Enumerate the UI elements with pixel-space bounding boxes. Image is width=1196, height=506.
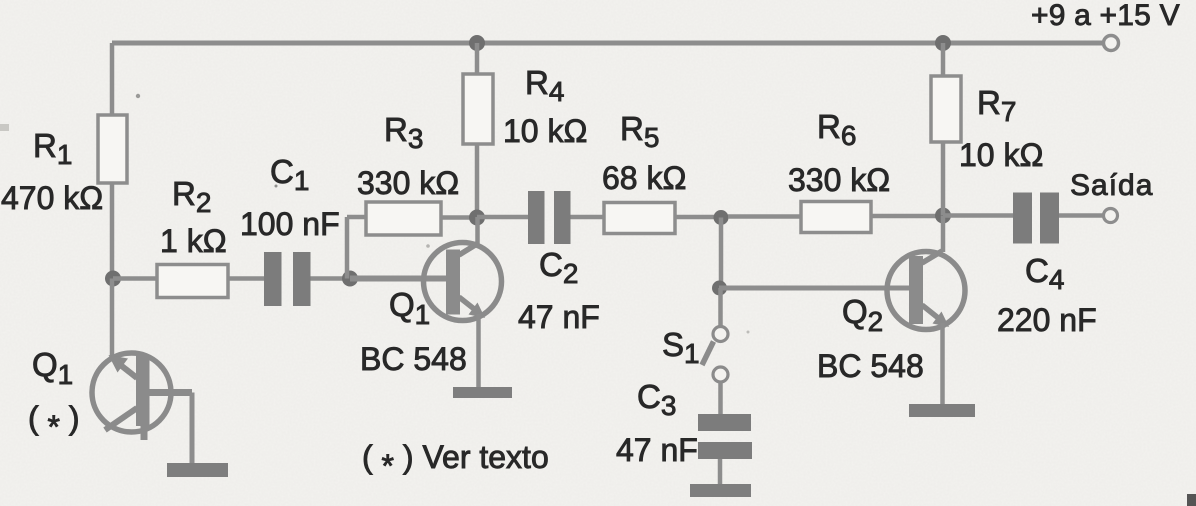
wire: C4 to output terminal — [1059, 213, 1104, 218]
svg-text:100 nF: 100 nF — [240, 206, 340, 242]
wire: rail down to R1 — [110, 43, 115, 115]
svg-text:1 kΩ: 1 kΩ — [160, 223, 227, 259]
resistor R4 — [463, 74, 493, 144]
wire: R7 to node F — [941, 142, 946, 215]
transistor Q1* (sensor) — [92, 353, 192, 440]
wire: R5 to node D — [675, 215, 714, 220]
wire: node C to C2 — [477, 215, 528, 220]
svg-text:68 kΩ: 68 kΩ — [602, 160, 686, 196]
svg-text:Saída: Saída — [1070, 169, 1153, 202]
wire: node A to R2 — [113, 276, 157, 281]
ground (Q1*) — [167, 463, 228, 477]
wire: R4 to node C — [475, 144, 480, 217]
wire: node D down to node E — [719, 218, 724, 289]
wire: node A down to Q1* emitter — [110, 279, 115, 358]
ground (Q2) — [909, 404, 975, 417]
wire: Q1 emitter to ground — [476, 314, 481, 387]
capacitor C1 — [264, 252, 282, 306]
scan artifact: bottom right corner square — [1187, 494, 1196, 506]
capacitor C4 — [1013, 193, 1032, 244]
power terminal (+9 a +15 V) — [1104, 36, 1119, 51]
wire: R3 to node C — [441, 215, 470, 220]
svg-text:470 kΩ: 470 kΩ — [1, 180, 103, 216]
node F junction dot — [935, 208, 951, 224]
resistor R5 — [604, 203, 675, 234]
node E junction dot — [712, 281, 727, 296]
wire: node B up and to R3 — [347, 217, 366, 279]
node C junction dot — [469, 210, 485, 226]
wire: node E to Q2 base — [719, 286, 910, 291]
svg-text:330 kΩ: 330 kΩ — [357, 165, 459, 201]
wire: Q2 emitter to ground — [940, 323, 945, 404]
wire: C2 to R5 — [571, 215, 605, 220]
scan artifact: faint speck left of S1 — [747, 331, 750, 334]
output terminal (Saída) — [1104, 209, 1118, 223]
svg-text:47 nF: 47 nF — [518, 299, 600, 335]
node A junction dot — [105, 271, 121, 287]
wire: C1 to node B — [311, 276, 351, 281]
scan artifact: left edge dash — [0, 124, 9, 131]
svg-text:220 nF: 220 nF — [997, 302, 1097, 338]
resistor R2 — [157, 265, 228, 298]
wire: node F down to Q2 collector — [941, 216, 946, 253]
wire: rail to R4 — [475, 43, 480, 74]
scan artifact: faint speck below R3 — [426, 244, 430, 248]
switch S1 — [702, 327, 728, 383]
resistor R3 — [366, 202, 441, 235]
wire: S1 to C3 — [718, 382, 723, 414]
svg-text:BC 548: BC 548 — [360, 341, 467, 377]
transistor Q1 (BC 548) — [424, 243, 502, 321]
wire: +V top rail — [112, 41, 1103, 46]
svg-text:47 nF: 47 nF — [616, 432, 698, 468]
svg-text:10 kΩ: 10 kΩ — [503, 113, 587, 149]
resistor R7 — [931, 76, 961, 142]
scan artifact: speck near rail — [136, 94, 140, 98]
svg-text:10 kΩ: 10 kΩ — [959, 137, 1043, 173]
transistor Q2 (BC 548) — [887, 251, 965, 330]
wire: node F to C4 — [943, 213, 1013, 218]
wire: rail to R7 — [941, 43, 946, 76]
node B junction dot — [342, 271, 358, 287]
wire: node E down to S1 — [718, 288, 723, 326]
rail junction dot (R4) — [469, 35, 485, 51]
rail junction dot (R7) — [935, 35, 951, 51]
wire: C3 to ground — [718, 459, 723, 484]
svg-text:BC 548: BC 548 — [817, 348, 924, 384]
capacitor C3 — [698, 414, 751, 431]
node D junction dot — [714, 210, 729, 225]
resistor R6 — [801, 202, 871, 233]
ground (Q1 BC548) — [453, 387, 512, 398]
ground (C3) — [690, 484, 751, 497]
wire: node C down to Q1 collector — [475, 217, 480, 247]
wire: R1 to base node — [110, 183, 115, 279]
svg-text:+9 a +15 V: +9 a +15 V — [1031, 0, 1180, 32]
wire: node B to Q1 base — [350, 276, 448, 282]
wire: R2 to C1 — [228, 276, 264, 281]
svg-text:330 kΩ: 330 kΩ — [788, 162, 890, 198]
wire: Q1* lead to ground — [190, 393, 195, 464]
wire: R6 to node F — [871, 214, 936, 219]
wire: node D to R6 — [728, 214, 801, 219]
resistor R1 — [98, 115, 127, 183]
capacitor C2 — [528, 191, 545, 244]
scan artifact: speck near C1 label — [275, 185, 278, 188]
